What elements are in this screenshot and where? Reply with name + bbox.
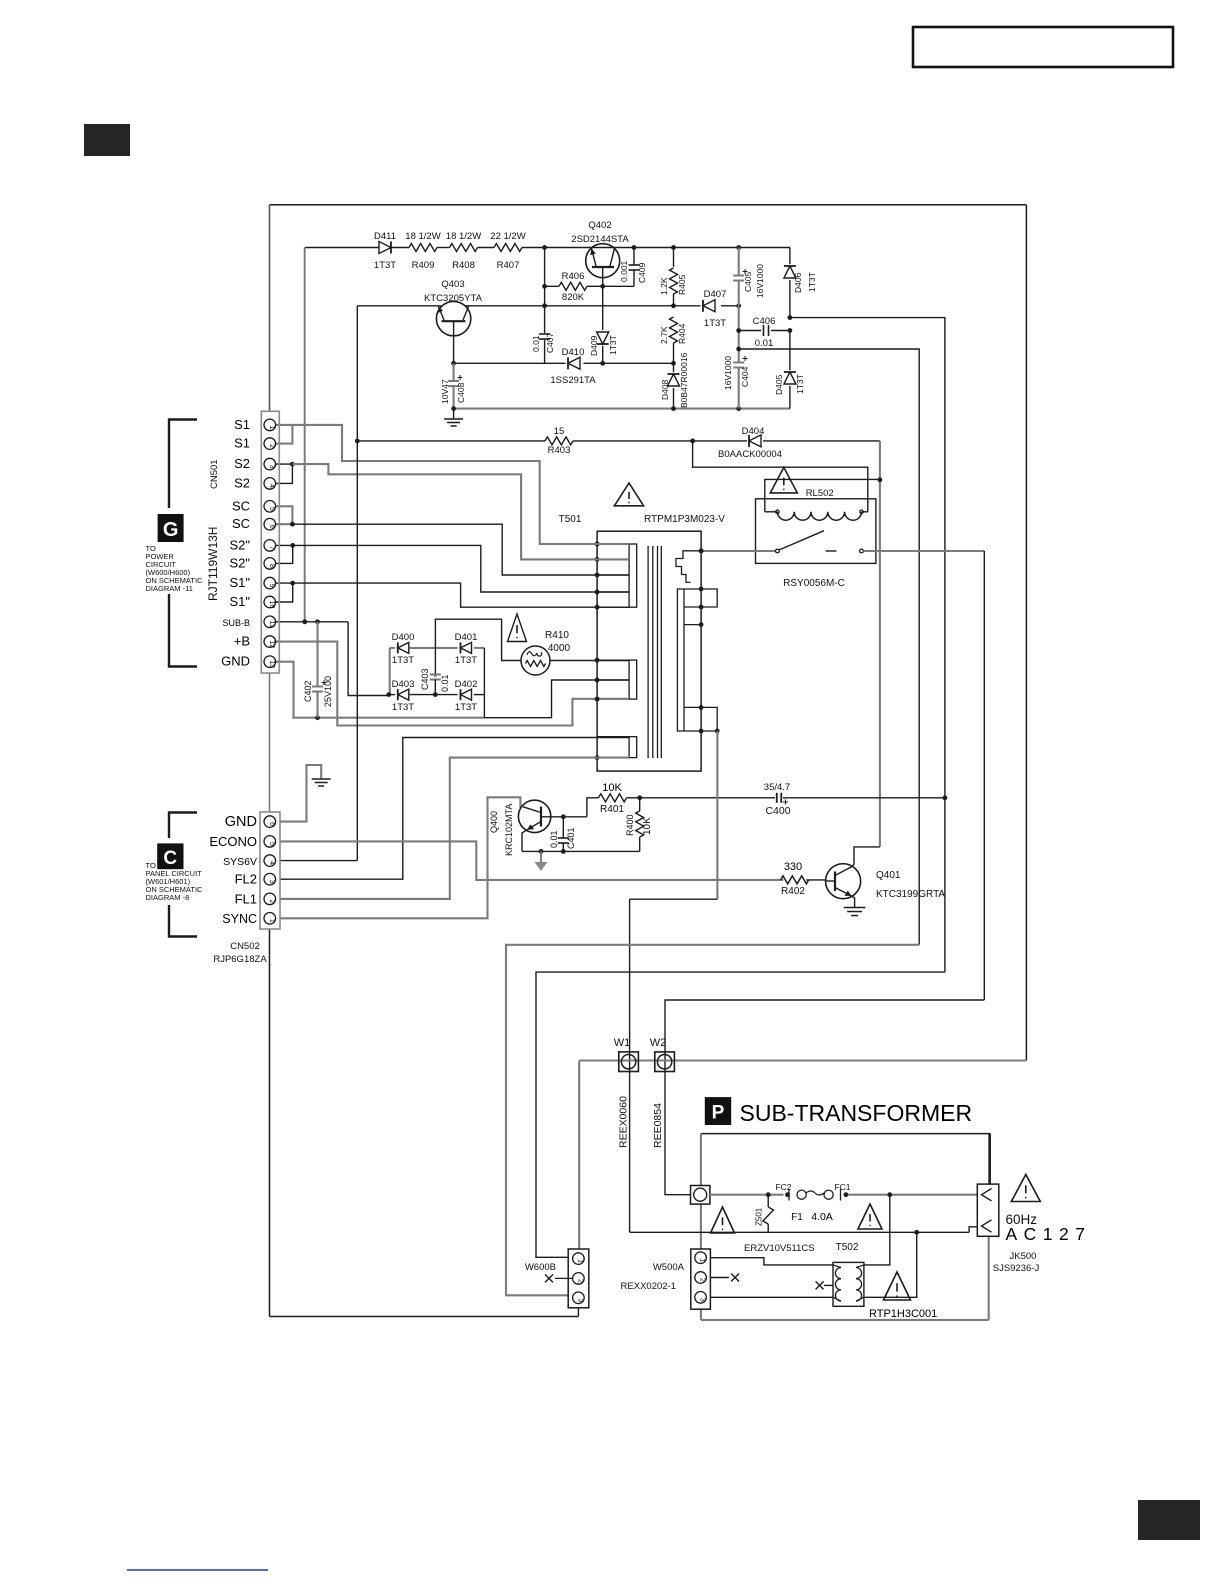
wire ECONO to R402 xyxy=(280,841,783,880)
svg-text:KTC3199GRTA: KTC3199GRTA xyxy=(876,889,945,900)
svg-text:R406: R406 xyxy=(562,271,585,282)
connector CN501 RJT119W13H xyxy=(261,411,279,673)
svg-text:11: 11 xyxy=(268,621,275,628)
fuse clip FC1 xyxy=(840,1189,842,1201)
transistor Q402 xyxy=(586,244,620,278)
svg-text:ECONO: ECONO xyxy=(209,834,257,849)
svg-text:10V47: 10V47 xyxy=(440,379,450,404)
wire Q401 collector xyxy=(852,847,880,867)
svg-text:2: 2 xyxy=(268,444,275,448)
svg-text:FL1: FL1 xyxy=(235,891,257,906)
svg-text:R410: R410 xyxy=(545,630,569,641)
connector W input square xyxy=(691,1186,710,1205)
svg-text:D408: D408 xyxy=(660,379,670,400)
page corner black box top-left xyxy=(84,124,130,156)
wire outer top edge xyxy=(270,204,1027,206)
svg-text:10K: 10K xyxy=(602,782,622,794)
wire bridge bottom row xyxy=(389,694,395,696)
wire CN501 pins5-6 SC xyxy=(276,506,293,524)
svg-text:C401: C401 xyxy=(566,827,576,849)
svg-text:C403: C403 xyxy=(420,668,430,690)
diode D402 xyxy=(460,689,462,700)
relay switch blade xyxy=(779,531,824,550)
connector CN502 RJP6G18ZA xyxy=(260,812,280,929)
svg-text:SYS6V: SYS6V xyxy=(223,856,257,868)
wire AC line top xyxy=(710,1194,784,1196)
ground CN502 xyxy=(312,778,331,780)
wire SYS6V riser xyxy=(356,306,358,861)
ground below Q400 xyxy=(540,851,542,862)
svg-text:Q400: Q400 xyxy=(489,811,499,833)
resistor R403 xyxy=(545,437,573,445)
svg-text:Q402: Q402 xyxy=(588,220,611,231)
wire T502 right bottom xyxy=(864,1232,917,1297)
warning triangle JK500 xyxy=(1011,1175,1040,1202)
svg-text:C400: C400 xyxy=(765,805,790,817)
svg-text:C: C xyxy=(163,848,177,869)
svg-text:1T3T: 1T3T xyxy=(374,260,396,271)
svg-text:B0AACK00004: B0AACK00004 xyxy=(718,449,782,460)
wire Q400 collector row xyxy=(541,816,587,818)
capacitor C402 electrolytic xyxy=(316,622,318,687)
label C box xyxy=(157,843,183,869)
svg-text:Z501: Z501 xyxy=(755,1207,764,1226)
wire CN502 GND to ground xyxy=(280,765,321,822)
svg-text:13: 13 xyxy=(268,660,275,668)
bracket C block xyxy=(169,813,197,839)
svg-text:SC: SC xyxy=(232,516,250,531)
wire Q400 emitter down xyxy=(522,830,527,852)
label G box xyxy=(158,514,184,542)
wire W600B bottom stub xyxy=(577,1308,579,1317)
transformer T501 core xyxy=(647,546,649,758)
svg-text:ERZV10V511CS: ERZV10V511CS xyxy=(744,1243,815,1254)
svg-text:1SS291TA: 1SS291TA xyxy=(550,375,596,386)
wire CN501 pins1-2 S1 xyxy=(276,425,293,444)
svg-text:D400: D400 xyxy=(392,632,415,643)
svg-text:R403: R403 xyxy=(548,445,571,456)
diode D411 xyxy=(390,242,392,254)
wire W600B pin1 riser xyxy=(578,1061,580,1250)
svg-text:REEX0060: REEX0060 xyxy=(618,1096,630,1148)
svg-text:1T3T: 1T3T xyxy=(455,655,477,666)
svg-text:KTC3205YTA: KTC3205YTA xyxy=(424,293,483,304)
svg-text:5: 5 xyxy=(268,842,275,846)
svg-text:R405: R405 xyxy=(677,274,687,295)
svg-text:C407: C407 xyxy=(545,332,555,353)
svg-text:2: 2 xyxy=(268,899,275,903)
wire bridge left edge xyxy=(389,648,391,695)
transistor Q401 xyxy=(826,864,861,899)
svg-text:AC127: AC127 xyxy=(1006,1224,1092,1244)
wire Q400 bottom row xyxy=(522,850,640,852)
wire W2 riser xyxy=(665,1000,984,1195)
svg-text:SYNC: SYNC xyxy=(222,912,257,926)
svg-text:10: 10 xyxy=(268,601,275,609)
svg-text:R409: R409 xyxy=(412,260,435,271)
svg-text:GND: GND xyxy=(221,654,250,669)
svg-text:R404: R404 xyxy=(677,323,687,344)
wire outer right edge xyxy=(1025,205,1027,1061)
svg-text:D405: D405 xyxy=(774,374,784,395)
svg-text:0.01: 0.01 xyxy=(531,335,541,352)
transformer T501 tap loops xyxy=(701,589,717,607)
svg-text:330: 330 xyxy=(784,861,802,873)
svg-text:P: P xyxy=(712,1103,725,1124)
svg-text:RJP6G18ZA: RJP6G18ZA xyxy=(213,954,267,965)
svg-text:C402: C402 xyxy=(303,680,313,702)
capacitor C408 electrolytic xyxy=(453,363,455,381)
resistor R404 vertical xyxy=(670,317,678,343)
wire relay coil feed xyxy=(693,441,868,512)
diode D404 xyxy=(693,440,747,442)
transformer T501 secondary winding xyxy=(677,589,684,731)
svg-text:1T3T: 1T3T xyxy=(455,702,477,713)
svg-text:1T3T: 1T3T xyxy=(704,318,726,329)
svg-text:W500A: W500A xyxy=(653,1262,685,1273)
svg-text:T502: T502 xyxy=(836,1242,859,1253)
wire T502 right top xyxy=(864,1195,890,1265)
wire D406 output to right riser xyxy=(790,318,945,798)
svg-text:W600B: W600B xyxy=(525,1262,556,1273)
svg-text:RJT119W13H: RJT119W13H xyxy=(206,527,220,601)
diode D405 vertical xyxy=(789,331,791,371)
svg-text:D407: D407 xyxy=(704,289,727,300)
svg-text:1T3T: 1T3T xyxy=(392,702,414,713)
svg-text:S1: S1 xyxy=(234,417,250,432)
wire R410 right to T501 xyxy=(550,660,629,662)
wire W500A pin1 to T502 xyxy=(710,1258,833,1265)
svg-text:6: 6 xyxy=(268,822,275,826)
wire W500A pin3 to T502 xyxy=(710,1296,833,1298)
svg-text:REXX0202-1: REXX0202-1 xyxy=(621,1281,676,1292)
svg-text:C404: C404 xyxy=(740,366,750,387)
svg-text:1T3T: 1T3T xyxy=(795,374,805,394)
svg-text:FC2: FC2 xyxy=(775,1182,791,1192)
wire CN501 pins7-8 S2dbl xyxy=(276,545,293,563)
wire transformer to mains riser x=717.4 xyxy=(716,731,718,899)
diode D401 xyxy=(460,642,462,653)
svg-text:1T3T: 1T3T xyxy=(608,335,618,355)
svg-text:D402: D402 xyxy=(455,679,478,690)
wire C404 tap to right riser xyxy=(739,349,920,945)
wire SYNC riser to Q400 base xyxy=(280,797,520,918)
resistor R408 xyxy=(450,244,478,252)
T502 middle tap open xyxy=(816,1281,824,1289)
fuse clip FC2 xyxy=(788,1189,790,1201)
svg-text:JK500: JK500 xyxy=(1010,1251,1037,1262)
svg-text:10K: 10K xyxy=(642,817,653,835)
capacitor C405 electrolytic xyxy=(738,248,740,276)
svg-text:D403: D403 xyxy=(392,679,415,690)
svg-text:S1": S1" xyxy=(229,594,250,609)
svg-text:RTPM1P3M023-V: RTPM1P3M023-V xyxy=(644,514,725,525)
page number black box bottom-right xyxy=(1138,1500,1200,1540)
wire top rail y=247.5 xyxy=(305,247,379,249)
wire CN501 pin13 GND rail xyxy=(276,662,485,718)
svg-text:C409: C409 xyxy=(637,262,647,283)
warning triangle R410 xyxy=(508,614,527,642)
svg-text:16V1000: 16V1000 xyxy=(723,356,733,390)
svg-text:7: 7 xyxy=(268,546,275,550)
svg-text:R408: R408 xyxy=(452,260,475,271)
varistor Z501 xyxy=(767,1195,769,1207)
svg-text:35/4.7: 35/4.7 xyxy=(764,782,790,793)
svg-text:4.0A: 4.0A xyxy=(811,1211,833,1223)
svg-text:D410: D410 xyxy=(562,347,585,358)
svg-text:GND: GND xyxy=(225,814,257,830)
diode D403 xyxy=(397,689,399,700)
svg-text:3: 3 xyxy=(268,880,275,884)
svg-text:S1: S1 xyxy=(234,436,250,451)
warning triangle T502 xyxy=(884,1272,911,1300)
ground below C408 xyxy=(453,409,455,419)
connector JK500 xyxy=(977,1184,999,1236)
svg-text:F1: F1 xyxy=(791,1212,803,1223)
wire Q403 collector / D407 row y=305.8 xyxy=(465,305,701,307)
svg-text:RTP1H3C001: RTP1H3C001 xyxy=(869,1308,937,1320)
svg-text:Q401: Q401 xyxy=(876,870,901,881)
svg-text:4000: 4000 xyxy=(548,643,571,654)
vertical x=544.6 with capacitor C407 xyxy=(544,248,546,334)
diode D410 xyxy=(567,357,569,369)
svg-text:18 1/2W: 18 1/2W xyxy=(446,231,481,242)
node T501 left bus dots upper xyxy=(595,542,600,547)
wire CN501 pin12 +B rail xyxy=(276,642,629,726)
svg-text:SC: SC xyxy=(232,498,250,513)
svg-text:RSY0056M-C: RSY0056M-C xyxy=(783,578,845,589)
connector W600B xyxy=(568,1249,589,1308)
svg-text:9: 9 xyxy=(268,584,275,588)
wire left spine segments xyxy=(269,205,271,411)
diode D408 vertical xyxy=(673,363,675,372)
fusible resistor R410 xyxy=(521,646,550,675)
svg-text:FL2: FL2 xyxy=(235,872,257,887)
wire Q403 base from SYS6V riser xyxy=(357,305,441,307)
wire bridge right edge down to rail xyxy=(483,648,485,718)
resistor R402 xyxy=(781,876,809,884)
wire emitter row y=363.3 xyxy=(454,362,566,364)
svg-text:18 1/2W: 18 1/2W xyxy=(405,231,440,242)
wire AC line bottom rail xyxy=(630,1231,970,1233)
svg-text:CN502: CN502 xyxy=(230,941,260,952)
svg-text:R402: R402 xyxy=(781,886,805,897)
svg-text:DIAGRAM -11: DIAGRAM -11 xyxy=(146,584,193,593)
transformer T501 top step connection xyxy=(676,551,701,583)
svg-text:2.7K: 2.7K xyxy=(659,326,669,344)
wire W500A pin2 open xyxy=(710,1277,729,1279)
svg-text:R400: R400 xyxy=(625,814,635,836)
svg-text:C405: C405 xyxy=(743,271,753,292)
wire SUB-B riser x=304.7 xyxy=(304,248,306,622)
warning triangle sub left xyxy=(711,1207,735,1233)
sub-transformer box outline xyxy=(701,1133,990,1135)
svg-text:SUB-B: SUB-B xyxy=(222,618,250,628)
svg-text:4: 4 xyxy=(268,484,275,488)
svg-text:5: 5 xyxy=(268,507,275,511)
title block rectangle (empty) xyxy=(913,27,1173,67)
transformer T502 xyxy=(833,1262,864,1306)
wire Q401 emitter and ground xyxy=(852,896,855,908)
connector W500A xyxy=(691,1249,711,1309)
svg-text:R407: R407 xyxy=(497,260,520,271)
svg-text:16V1000: 16V1000 xyxy=(755,264,765,298)
svg-text:2SD2144STA: 2SD2144STA xyxy=(571,234,629,245)
svg-text:3: 3 xyxy=(699,1298,706,1302)
wire R403 row y=440.9 xyxy=(357,440,545,442)
svg-text:KRC102MTA: KRC102MTA xyxy=(504,804,514,856)
label P box xyxy=(705,1097,731,1125)
capacitor C401 xyxy=(562,817,564,838)
wire FL1 riser xyxy=(280,758,629,899)
wire W1-W2 horizontal xyxy=(579,1059,1026,1061)
svg-text:D404: D404 xyxy=(742,426,765,437)
svg-text:SJS9236-J: SJS9236-J xyxy=(993,1263,1040,1274)
svg-text:22 1/2W: 22 1/2W xyxy=(490,231,525,242)
svg-text:0.01: 0.01 xyxy=(549,830,559,848)
svg-text:T501: T501 xyxy=(559,514,582,525)
svg-text:+B: +B xyxy=(234,634,250,649)
wire riser x=945 lower xyxy=(944,798,946,972)
warning triangle relay xyxy=(770,467,797,493)
resistor R400 vertical xyxy=(639,798,641,811)
capacitor C400 electrolytic xyxy=(640,797,775,799)
svg-text:S2: S2 xyxy=(234,456,250,471)
wire W600B pin2 open xyxy=(555,1277,573,1279)
svg-text:2: 2 xyxy=(699,1278,706,1282)
transistor Q400 xyxy=(518,800,550,832)
svg-text:W1: W1 xyxy=(614,1037,631,1049)
svg-text:B0B47R00016: B0B47R00016 xyxy=(679,352,689,408)
svg-text:6: 6 xyxy=(268,525,275,529)
resistor R407 xyxy=(494,244,522,252)
diode D406 vertical xyxy=(789,248,791,265)
wire relay contact to right riser xyxy=(863,550,984,552)
relay contact wire y=551 xyxy=(701,550,775,552)
wire D404 riser to Q401 collector xyxy=(879,441,881,847)
svg-text:S2: S2 xyxy=(234,475,250,490)
svg-text:C408: C408 xyxy=(456,382,466,403)
svg-text:820K: 820K xyxy=(562,292,585,303)
svg-text:RL502: RL502 xyxy=(806,488,834,499)
capacitor C404 electrolytic xyxy=(733,362,744,364)
svg-text:4: 4 xyxy=(268,861,275,865)
relay RL502 coil box xyxy=(765,479,880,511)
resistor R405 vertical xyxy=(673,248,675,268)
wire y=972.1 row xyxy=(536,972,945,1257)
capacitor C403 xyxy=(434,675,436,678)
svg-text:1: 1 xyxy=(576,1259,583,1263)
diode D407 xyxy=(702,300,704,312)
wire bridge top row xyxy=(390,647,395,649)
transistor Q403 xyxy=(436,301,470,335)
diode D400 xyxy=(397,642,399,653)
svg-text:CN501: CN501 xyxy=(209,459,220,489)
svg-text:W2: W2 xyxy=(650,1037,667,1049)
fuse F1 xyxy=(797,1190,806,1199)
svg-text:1T3T: 1T3T xyxy=(392,655,414,666)
svg-text:1.2K: 1.2K xyxy=(659,277,669,295)
svg-text:D411: D411 xyxy=(374,231,396,242)
svg-text:SUB-TRANSFORMER: SUB-TRANSFORMER xyxy=(740,1100,973,1126)
svg-text:Q403: Q403 xyxy=(441,279,464,290)
relay RL502 outer box xyxy=(756,499,876,564)
svg-text:1: 1 xyxy=(699,1258,706,1262)
wire FL2 riser xyxy=(280,738,629,880)
bracket G block xyxy=(169,420,197,509)
svg-text:D406: D406 xyxy=(793,272,803,293)
svg-text:C406: C406 xyxy=(753,316,776,327)
wire CN501 pins3-4 S2 xyxy=(276,464,293,483)
svg-text:3: 3 xyxy=(576,1298,583,1302)
wire C404 column xyxy=(738,306,740,363)
wire CN501 pin11 SUB-B xyxy=(276,621,348,623)
resistor R406 xyxy=(545,285,559,287)
svg-text:2: 2 xyxy=(576,1279,583,1283)
warning triangle T501 xyxy=(614,483,643,506)
svg-text:D401: D401 xyxy=(455,632,478,643)
blue footer line xyxy=(127,1569,268,1571)
svg-text:0.01: 0.01 xyxy=(440,674,450,692)
transformer T501 winding block2 xyxy=(629,660,637,699)
svg-text:REE0854: REE0854 xyxy=(652,1103,664,1148)
resistor R401 xyxy=(599,794,627,802)
capacitor C406 xyxy=(739,330,761,332)
svg-text:3: 3 xyxy=(268,465,275,469)
svg-text:DIAGRAM -8: DIAGRAM -8 xyxy=(146,893,190,902)
transformer T501 winding block3 xyxy=(629,737,637,758)
wire bottom row y=408.6 xyxy=(454,408,790,410)
wire R410 left to C403 xyxy=(435,619,521,674)
svg-text:S2": S2" xyxy=(229,555,250,570)
wire y=944.8 row xyxy=(506,945,919,1296)
resistor R409 xyxy=(409,244,437,252)
svg-text:S1": S1" xyxy=(229,575,250,590)
transformer T501 secondary taps xyxy=(684,588,701,590)
svg-text:15: 15 xyxy=(554,426,565,437)
svg-text:0.01: 0.01 xyxy=(755,338,774,349)
connector W2 xyxy=(655,1052,675,1072)
svg-text:12: 12 xyxy=(268,640,275,648)
svg-text:1: 1 xyxy=(268,919,275,923)
relay RL502 coil xyxy=(777,512,861,520)
diode D409 vertical xyxy=(602,286,604,330)
svg-text:R401: R401 xyxy=(600,804,624,815)
transformer T501 primary winding block1 xyxy=(629,544,637,607)
svg-text:G: G xyxy=(163,519,179,541)
svg-text:S2": S2" xyxy=(229,537,250,552)
warning triangle sub mid xyxy=(858,1204,882,1229)
wire bottom-left to W600B xyxy=(270,1316,579,1318)
node rail junction dots xyxy=(542,245,547,250)
svg-text:D409: D409 xyxy=(589,335,599,356)
svg-text:1: 1 xyxy=(268,425,275,429)
svg-text:25V100: 25V100 xyxy=(323,676,333,707)
connector W1 xyxy=(619,1052,639,1072)
svg-text:0.001: 0.001 xyxy=(619,260,629,282)
svg-text:FC1: FC1 xyxy=(834,1182,850,1192)
svg-text:8: 8 xyxy=(268,564,275,568)
capacitor C409 xyxy=(633,248,635,266)
transformer T501 outline xyxy=(597,531,701,771)
wire CN501 pins9-10 S1dbl xyxy=(276,583,293,602)
svg-text:1T3T: 1T3T xyxy=(807,272,817,292)
